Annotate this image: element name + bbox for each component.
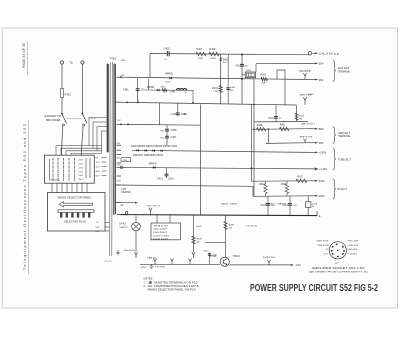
arrow 88V — [310, 128, 318, 130]
svg-text:MR402: MR402 — [147, 87, 155, 89]
test point CKT TP1 — [149, 208, 152, 215]
svg-text:MT405: MT405 — [209, 256, 217, 258]
rail +1.2kV (167) — [121, 167, 315, 169]
svg-text:100-115V: 100-115V — [153, 229, 168, 231]
rail B+ (102) — [116, 102, 297, 105]
tap wire 50V — [102, 175, 107, 177]
wire C416 — [267, 196, 269, 215]
svg-text:E106: E106 — [141, 267, 147, 269]
junction rail102 L401 — [192, 102, 194, 104]
node switch A — [61, 113, 63, 115]
socket SK4 pins — [336, 243, 338, 245]
svg-text:C405: C405 — [230, 87, 236, 89]
svg-text:50V: 50V — [96, 175, 100, 177]
svg-text:C419: C419 — [268, 118, 274, 120]
sidebar rule top — [27, 41, 29, 75]
resistor R419 — [285, 184, 288, 194]
svg-text:R404: R404 — [212, 88, 218, 90]
wire heater to 250V — [252, 186, 254, 196]
svg-text:16U: 16U — [293, 205, 297, 207]
svg-text:R421: R421 — [280, 125, 286, 127]
rail 98V lower (143) — [266, 142, 310, 145]
junction rail54 — [241, 54, 243, 56]
svg-text:R419: R419 — [281, 184, 287, 186]
svg-text:100U: 100U — [181, 114, 187, 116]
resistor R420 — [257, 127, 267, 131]
svg-text:R420: R420 — [257, 125, 263, 127]
svg-text:-15V: -15V — [295, 263, 301, 267]
bracket amp — [333, 127, 336, 144]
test point at 190 — [188, 259, 191, 265]
svg-text:50V: 50V — [319, 62, 324, 66]
svg-text:MAINS SELECTOR PANEL: MAINS SELECTOR PANEL — [58, 196, 93, 200]
svg-text:10V: 10V — [95, 227, 99, 229]
svg-text:TR404: TR404 — [233, 256, 241, 258]
svg-text:AMPLIFIER SOCKET SK4 Y-P: AMPLIFIER SOCKET SK4 Y-PC — [312, 267, 366, 270]
junction 1.2kV 560V — [251, 167, 253, 169]
fuse F401 — [61, 89, 64, 98]
svg-text:(AS VIEWED FROM COPPER SIDE P: (AS VIEWED FROM COPPER SIDE P.C.B.) — [309, 271, 368, 274]
svg-text:ALL COMPONENTS/VALUES 140V &: ALL COMPONENTS/VALUES 140V & — [148, 285, 200, 288]
svg-text:D4 PK5: D4 PK5 — [300, 71, 312, 73]
svg-text:PL(IN B2): PL(IN B2) — [347, 253, 356, 255]
svg-text:560R: 560R — [211, 58, 217, 60]
capacitor C416 — [266, 203, 270, 205]
svg-text:200-250V: 200-250V — [153, 232, 168, 234]
svg-text:NOTES:: NOTES: — [144, 278, 154, 281]
mains selector tap board — [44, 155, 94, 183]
ground symbol left — [116, 250, 120, 255]
resistor R403 — [162, 89, 167, 92]
resistor R404 — [219, 86, 222, 93]
wire C413 — [166, 168, 168, 179]
transistor TR404 internals — [223, 259, 227, 265]
secondary tap stubs — [117, 76, 122, 78]
svg-text:220V: 220V — [79, 167, 84, 169]
svg-text:R418: R418 — [259, 184, 265, 186]
tap column 3 — [63, 158, 65, 160]
svg-text:98V: 98V — [319, 141, 324, 145]
wire L401 out — [192, 90, 194, 103]
svg-text:GANGED TO: GANGED TO — [44, 114, 61, 118]
resistor R421 — [280, 127, 290, 131]
svg-text:C420: C420 — [203, 250, 209, 252]
svg-text:200V: 200V — [79, 160, 84, 162]
node tap 167 ring — [120, 166, 122, 168]
svg-text:TB A 6.3V: TB A 6.3V — [153, 224, 169, 227]
resistor R438 — [192, 236, 195, 244]
wire C418 top — [307, 196, 309, 202]
wire R438 chain — [193, 215, 195, 252]
arrow 560V — [310, 180, 318, 182]
svg-text:CKT TP1 5: CKT TP1 5 — [146, 205, 161, 207]
terminal block TB A — [151, 223, 181, 240]
arrow 98V lower — [310, 142, 318, 144]
svg-text:HV ECT: HV ECT — [337, 189, 348, 191]
capacitor C408 — [165, 128, 169, 130]
svg-text:R426: R426 — [299, 115, 305, 117]
svg-text:12V: 12V — [117, 120, 121, 122]
svg-text:C411: C411 — [122, 160, 128, 162]
svg-text:R417: R417 — [298, 177, 304, 179]
capacitor C420 — [208, 253, 211, 255]
diode MR403 — [136, 149, 138, 151]
tap column 2 — [57, 158, 59, 160]
svg-text:240V: 240V — [121, 60, 126, 62]
zener D402 — [220, 58, 222, 60]
svg-text:MR401: MR401 — [165, 73, 173, 76]
svg-text:E: E — [319, 214, 321, 218]
sidebar rule main — [28, 120, 30, 274]
stub 242 — [205, 241, 226, 243]
svg-text:40V: 40V — [116, 158, 120, 160]
transistor TR404 — [220, 257, 229, 266]
svg-text:+150V: +150V — [319, 151, 327, 155]
junction rail102 a — [126, 102, 128, 104]
transformer core line 2 — [111, 62, 114, 256]
ground symbol small — [150, 264, 154, 268]
svg-text:-12V: -12V — [334, 263, 339, 265]
switch S401b blade — [83, 114, 88, 123]
inductor L401 — [177, 89, 187, 91]
svg-text:230V: 230V — [79, 171, 84, 173]
diode MR404 — [144, 149, 146, 151]
svg-text:1.: 1. — [144, 282, 146, 285]
capacitor C401 — [136, 88, 140, 90]
wire C408 C407 chain — [166, 125, 168, 146]
wire TB A feed 1 — [156, 215, 158, 223]
vertical bus 254 — [253, 79, 255, 196]
switch gang link — [67, 118, 81, 120]
rail heater (185) — [116, 185, 253, 186]
resistor R409 — [261, 77, 268, 81]
svg-text:56R: 56R — [262, 83, 266, 85]
svg-text:D403 MR403 MR404 MR405 MR406 C: D403 MR403 MR404 MR405 MR406 C409 — [131, 146, 178, 148]
svg-text:LP401: LP401 — [119, 224, 126, 226]
capacitor C419 — [274, 115, 278, 117]
node tap 24V — [120, 76, 122, 78]
svg-text:0V: 0V — [121, 204, 124, 207]
resistor R417 — [296, 179, 307, 183]
wire C410 — [177, 103, 179, 117]
svg-text:220R: 220R — [198, 58, 204, 60]
svg-text:C410: C410 — [171, 113, 177, 116]
tap wire 0V — [102, 157, 107, 159]
svg-text:240V: 240V — [79, 175, 84, 177]
plug wire 2 — [105, 226, 109, 228]
wire C419 — [275, 105, 277, 122]
svg-text:C408: C408 — [171, 129, 177, 132]
resistor R407 — [196, 52, 206, 56]
test point at 155 — [153, 259, 156, 265]
capacitor C406 — [166, 51, 168, 56]
test point D4 PK5 — [303, 73, 306, 79]
rail 124 — [121, 123, 200, 126]
wire lamp feed — [135, 216, 137, 223]
tap column 1 — [52, 158, 54, 160]
wire to selector panel L — [61, 126, 62, 155]
svg-text:C413: C413 — [157, 178, 163, 181]
wire to regulator — [242, 74, 245, 76]
svg-text:TERMINAL: TERMINAL — [338, 135, 352, 138]
svg-text:POWER SUPPLY CIRCUIT S52 FIG: POWER SUPPLY CIRCUIT S52 FIG 5-2 — [250, 283, 378, 294]
svg-text:TUBE ECT: TUBE ECT — [338, 159, 352, 161]
svg-text:MR407 MR408 D404: MR407 MR408 D404 — [133, 155, 164, 157]
svg-text:2.2M: 2.2M — [213, 91, 218, 93]
svg-text:MAINS SELECTOR PANEL ON PC4: MAINS SELECTOR PANEL ON PC4 — [148, 289, 197, 292]
arrow 250V — [310, 195, 318, 197]
svg-text:MR409: MR409 — [149, 163, 157, 166]
svg-text:-9.0C: -9.0C — [323, 253, 329, 255]
svg-text:D401: D401 — [166, 81, 172, 83]
tap column 5 — [74, 158, 76, 160]
svg-text:HEATER: HEATER — [121, 191, 131, 194]
wire TR404 feed — [225, 215, 227, 257]
svg-text:C406: C406 — [164, 48, 171, 51]
test point at 172 — [170, 259, 173, 265]
svg-text:24V: 24V — [223, 62, 227, 64]
vertical bus 200 — [199, 104, 201, 214]
svg-text:SUPPLY: SUPPLY — [119, 227, 128, 229]
svg-text:SEE NOTE: SEE NOTE — [300, 136, 314, 138]
diode MR406 — [160, 150, 162, 152]
svg-text:T401: T401 — [110, 57, 117, 61]
svg-text:D(IN) HTR: D(IN) HTR — [347, 249, 357, 251]
diode MR405 — [152, 150, 154, 152]
capacitor C407 — [165, 135, 169, 137]
wire D402 branch — [220, 54, 222, 103]
capacitor C405 — [226, 87, 230, 89]
rail 88V (129) — [252, 128, 310, 131]
capacitor C412 — [240, 63, 244, 65]
wire MR402 feed — [147, 79, 149, 91]
wire neutral down — [82, 64, 84, 113]
svg-text:D43 PK4: D43 PK4 — [263, 257, 276, 259]
plug wire 3 — [105, 230, 109, 232]
transformer secondary inner line — [113, 64, 115, 215]
plug wire 1 — [105, 222, 109, 224]
svg-text:AUX ECT: AUX ECT — [338, 67, 351, 70]
resistor R418 — [264, 184, 267, 194]
0V heater return arrow — [116, 202, 137, 204]
transformer secondary winding — [114, 64, 115, 214]
node tap 124 — [120, 123, 122, 125]
svg-text:20V: 20V — [116, 143, 120, 145]
svg-text:25U: 25U — [160, 137, 164, 139]
svg-text:+ L.T +: + L.T + — [105, 261, 113, 263]
mains terminal L — [60, 61, 63, 64]
tap wire 25V — [102, 166, 107, 168]
wire corner 277 — [277, 70, 285, 105]
svg-text:C401: C401 — [123, 89, 129, 92]
transformer primary winding — [107, 64, 108, 152]
block C418 — [306, 202, 311, 208]
switch S401a contact — [62, 124, 64, 126]
block C411 — [121, 158, 131, 162]
arrow +1.2kV — [315, 168, 318, 170]
junction 254 rail129 — [253, 128, 255, 130]
switch S401b contact — [83, 124, 85, 126]
test point R438 — [192, 252, 195, 258]
rail +150V (150) — [132, 150, 310, 152]
resistor R439 — [224, 222, 227, 230]
svg-text:SEE PK6: SEE PK6 — [300, 95, 313, 97]
wire R419 bottom — [286, 194, 288, 197]
chassis bus (215) — [121, 215, 318, 216]
test point lamp — [134, 252, 137, 258]
wire -15V output — [229, 264, 291, 266]
regulator block inner — [246, 73, 254, 76]
svg-text:40V: 40V — [96, 171, 100, 173]
wire 159 between rails — [159, 103, 161, 125]
svg-text:PAGE 34 OF 35: PAGE 34 OF 35 — [21, 42, 26, 68]
rail +rect top (54) — [150, 54, 310, 55]
svg-text:L401: L401 — [170, 91, 176, 93]
wire C420 — [209, 253, 211, 265]
voltage selector plug panel — [48, 193, 106, 232]
wire R418 bottom — [265, 194, 267, 197]
wire to selector panel N — [81, 126, 83, 155]
switch gang link right — [89, 118, 97, 120]
diode MR401 — [169, 77, 171, 79]
bracket hv — [333, 179, 336, 199]
wire rail54 feed — [149, 54, 151, 78]
transformer core line 1 — [109, 62, 112, 256]
svg-text:DEEP HOLE: DEEP HOLE — [317, 241, 329, 243]
svg-text:CHASSIS + CHASSIS +: CHASSIS + CHASSIS + — [265, 202, 289, 205]
wire C405 branch — [227, 54, 229, 104]
junction rail102 C401 — [137, 102, 139, 104]
svg-text:TS 4OU: TS 4OU — [246, 226, 258, 228]
svg-text:S40 PK6: S40 PK6 — [124, 250, 136, 252]
svg-text:R408: R408 — [210, 48, 216, 51]
test point D43 PK4 — [267, 260, 270, 265]
svg-text:50U: 50U — [141, 90, 146, 92]
wire R418 top — [265, 181, 267, 184]
svg-text:C407: C407 — [171, 136, 177, 139]
svg-text:LAB 40: LAB 40 — [147, 257, 157, 260]
svg-text:SELECTOR PLUG: SELECTOR PLUG — [64, 220, 86, 223]
note 1 circled symbol — [149, 281, 152, 284]
arrow CAL — [313, 52, 318, 54]
svg-text:TS 2U6: TS 2U6 — [155, 267, 166, 269]
svg-text:16U: 16U — [230, 90, 234, 92]
arrow +150V — [310, 151, 318, 153]
regulator block — [245, 72, 255, 78]
diode MR409 — [153, 166, 155, 168]
svg-text:88V: 88V — [319, 127, 324, 131]
svg-text:TERMINAL: TERMINAL — [338, 70, 352, 73]
junction 254 rail102 — [253, 104, 255, 106]
rail 50V — [256, 62, 310, 64]
test rail (264) — [140, 263, 220, 265]
svg-text:25U: 25U — [160, 130, 164, 132]
test point SEE NOTE — [303, 139, 306, 143]
rail 250V (196) — [253, 195, 310, 198]
svg-text:250V: 250V — [79, 179, 84, 181]
stub above rail102 — [137, 100, 139, 103]
switch S401a blade — [62, 114, 67, 123]
tap column 4 — [68, 158, 70, 160]
transformer primary inner line — [107, 64, 109, 152]
svg-text:16U: 16U — [244, 65, 248, 67]
lamp LP401 — [132, 222, 141, 231]
svg-text:25V: 25V — [96, 166, 100, 168]
svg-text:210V: 210V — [79, 164, 84, 166]
rail rectifier (77) — [121, 77, 310, 79]
selector to plug connector wires — [51, 183, 53, 192]
tap wire 10V — [102, 161, 107, 163]
node switch B — [82, 113, 84, 115]
svg-text:BRI PANEL: BRI PANEL — [46, 118, 62, 122]
primary tap riser bundle — [56, 145, 102, 147]
wire live to switch — [61, 98, 63, 114]
svg-text:10V: 10V — [96, 162, 100, 164]
svg-text:R407: R407 — [197, 48, 203, 51]
svg-text:CAL 0.5V p-p: CAL 0.5V p-p — [319, 52, 340, 56]
svg-text:250V: 250V — [319, 194, 325, 198]
svg-text:24V: 24V — [95, 231, 99, 233]
wire TB A feed 2 — [169, 215, 171, 223]
arrow 98V upper — [310, 79, 318, 81]
svg-text:STH+ 100R: STH+ 100R — [347, 241, 358, 243]
svg-text:THIN HOLE: THIN HOLE — [317, 245, 329, 247]
wire C412 branch — [241, 55, 243, 104]
svg-text:CHASSIS + CHASSIS: CHASSIS + CHASSIS — [221, 202, 238, 205]
junction rail77 C412 — [241, 78, 243, 80]
svg-text:S402: S402 — [196, 226, 202, 228]
svg-text:R439: R439 — [229, 225, 235, 227]
svg-text:+100V HTR: +100V HTR — [347, 245, 358, 247]
wire R419 top — [286, 181, 288, 184]
bus terminal ring — [125, 212, 128, 215]
svg-text:+1.2kV: +1.2kV — [319, 167, 327, 171]
socket SK4 outline — [329, 242, 346, 259]
svg-text:6.3V: 6.3V — [117, 180, 122, 182]
vertical bus 251 — [251, 104, 253, 168]
svg-text:98V: 98V — [319, 78, 324, 82]
wire lamp down — [135, 231, 137, 252]
svg-text:∿: ∿ — [69, 60, 73, 65]
capacitor C413 — [165, 173, 169, 175]
svg-text:AMP ECT: AMP ECT — [338, 132, 351, 135]
wire C401 shunt — [137, 79, 139, 103]
wire C418 bottom — [307, 207, 309, 215]
terminal CAL — [308, 52, 311, 55]
svg-text:C418: C418 — [312, 203, 318, 205]
bracket aux 1 — [333, 60, 336, 82]
svg-text:C414 C415: C414 C415 — [153, 236, 170, 238]
svg-text:F401: F401 — [65, 92, 72, 96]
resistor R426 — [295, 113, 298, 120]
svg-text:2.: 2. — [144, 285, 146, 288]
svg-text:R409: R409 — [261, 75, 267, 77]
mains terminal N — [81, 61, 84, 64]
lamp LP401 cross — [133, 224, 139, 230]
arrow 50V — [310, 62, 318, 64]
capacitor C417 — [288, 202, 292, 204]
svg-text:R410: R410 — [246, 70, 252, 72]
svg-text:100U 100U: 100U 100U — [153, 238, 169, 240]
rail filter (90) — [146, 89, 193, 91]
svg-text:DENOTES TERMINALS ON PC3: DENOTES TERMINALS ON PC3 — [154, 282, 199, 285]
bracket tube — [333, 148, 336, 170]
wire 88V to 98V — [268, 129, 270, 143]
wire live down — [61, 64, 63, 88]
selector plug comb symbol — [58, 210, 94, 213]
junction 88V — [268, 128, 270, 130]
svg-text:560V: 560V — [319, 179, 325, 183]
